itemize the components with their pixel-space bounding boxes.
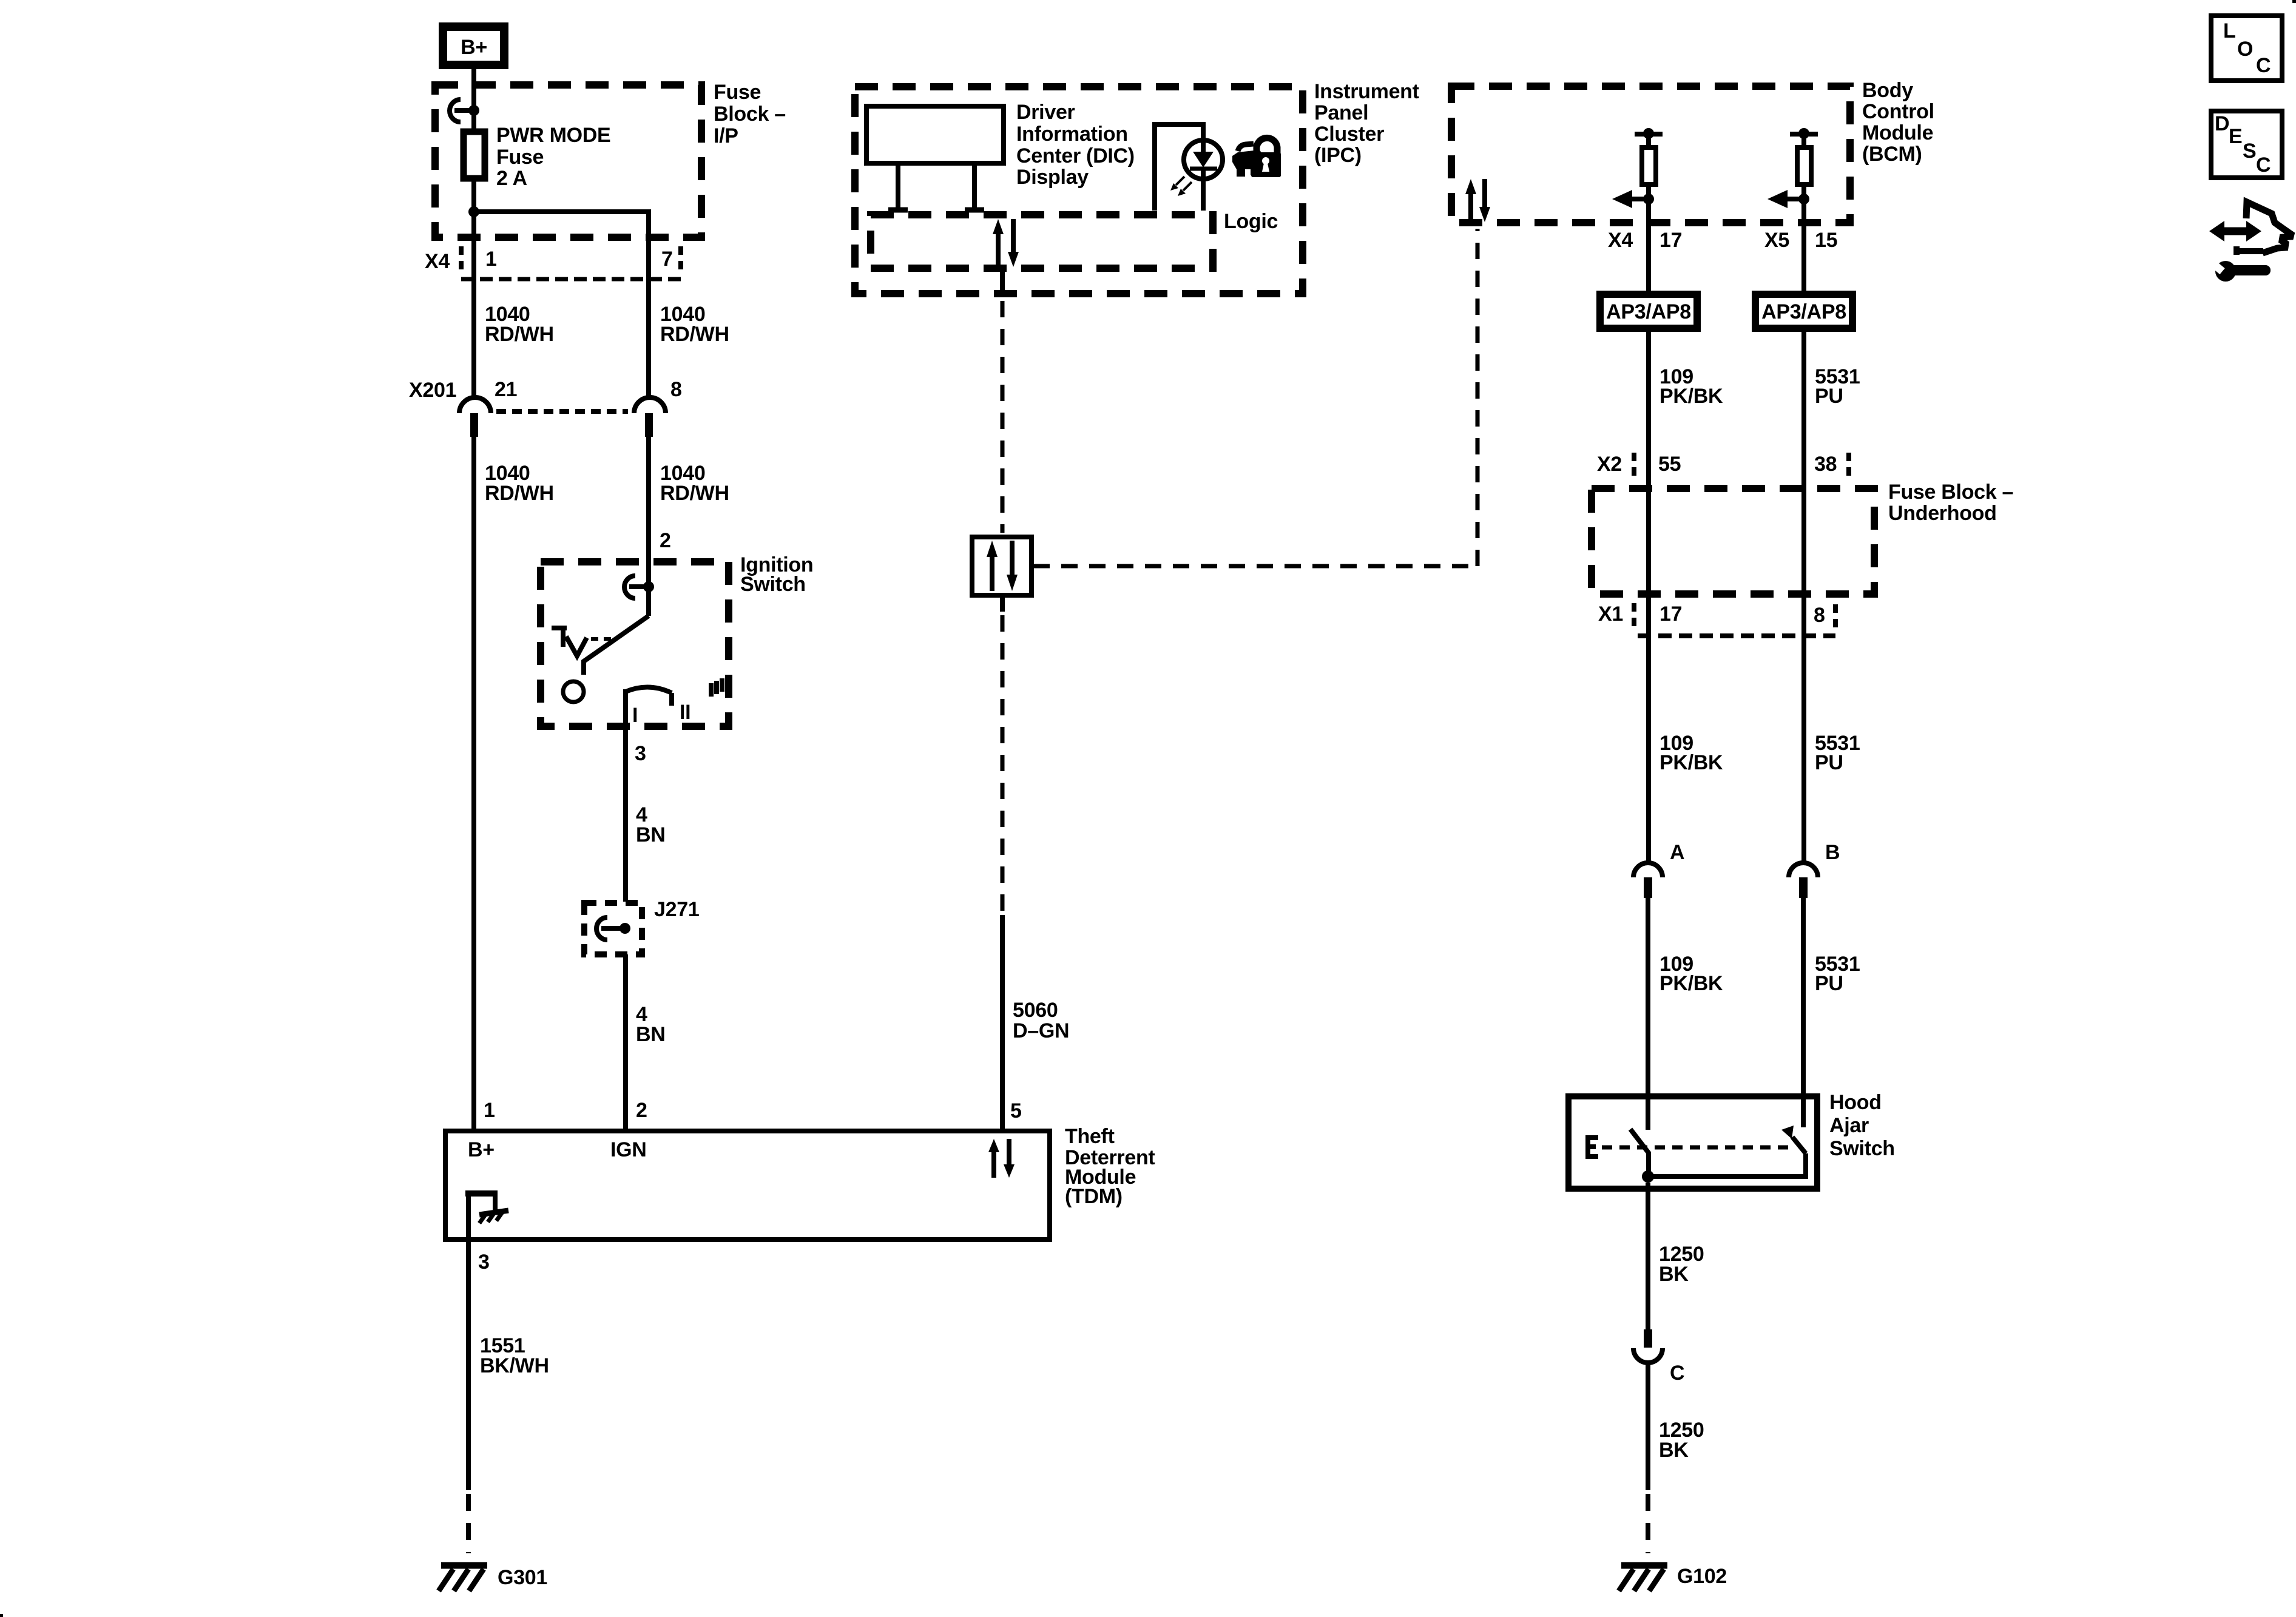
wire branch to X4 pin 7 [474, 212, 649, 398]
dashed serial data wire to BCM [1033, 229, 1477, 566]
body control module dashed box [1451, 86, 1850, 223]
svg-text:IGN: IGN [610, 1138, 647, 1161]
B+ power symbol box [443, 27, 504, 65]
svg-text:AP3/AP8: AP3/AP8 [1606, 300, 1691, 323]
svg-text:E: E [2229, 125, 2242, 148]
label Hood Ajar Switch [1829, 1091, 1895, 1160]
connector row X4 [425, 246, 683, 279]
BCM pull-up resistor left [1612, 128, 1663, 229]
svg-text:B+: B+ [461, 36, 487, 59]
svg-text:C: C [2256, 154, 2271, 177]
svg-text:D: D [2215, 112, 2229, 135]
svg-text:Hood: Hood [1829, 1091, 1882, 1114]
svg-text:X5: X5 [1764, 229, 1789, 252]
logic serial data arrows [993, 219, 1019, 267]
svg-text:8: 8 [670, 378, 682, 401]
TDM internal ground [465, 1193, 508, 1239]
label G301 [498, 1566, 547, 1589]
svg-text:I: I [632, 704, 638, 727]
splice J271 dashed box [584, 903, 642, 954]
svg-text:5: 5 [1010, 1099, 1022, 1122]
clip contact at J271 [596, 917, 630, 940]
label Body Control Module (BCM) [1862, 79, 1934, 166]
svg-text:5060: 5060 [1013, 999, 1058, 1022]
wire B+ to PWR MODE fuse [471, 69, 476, 130]
LOC reference box [2211, 16, 2282, 81]
AP3/AP8 box left [1600, 294, 1697, 328]
wire label 1040 RD/WH (lower left) [485, 462, 554, 505]
inline connector C [1633, 1329, 1684, 1385]
svg-text:RD/WH: RD/WH [660, 323, 729, 346]
serial data wire to TDM pin 5 [1000, 597, 1005, 1130]
svg-text:Switch: Switch [740, 573, 806, 596]
ignition switch blade and pivot [563, 616, 649, 702]
page corner mark bottom-left [0, 1614, 3, 1617]
svg-text:17: 17 [1660, 229, 1682, 252]
svg-text:C: C [1670, 1362, 1684, 1385]
wire J271 to TDM pin2 [623, 954, 628, 1130]
svg-text:B: B [1825, 841, 1840, 864]
svg-text:BK/WH: BK/WH [480, 1354, 549, 1377]
svg-text:55: 55 [1658, 453, 1681, 476]
svg-text:X201: X201 [409, 379, 456, 402]
label Fuse Block - Underhood [1888, 481, 2013, 525]
wires BCM to AP3/AP8 [1649, 229, 1804, 291]
wire connector C to ground G102 [1646, 1363, 1650, 1553]
DIC display legs [888, 166, 984, 210]
svg-text:17: 17 [1660, 603, 1682, 626]
svg-text:Center (DIC): Center (DIC) [1016, 144, 1135, 167]
pin 3 label TDM [478, 1251, 490, 1274]
wire label 5531 PU (first) [1815, 365, 1860, 408]
svg-text:BK: BK [1659, 1439, 1689, 1462]
svg-text:3: 3 [478, 1251, 490, 1274]
svg-text:Underhood: Underhood [1888, 502, 1997, 525]
svg-text:D–GN: D–GN [1013, 1019, 1069, 1042]
wire label 1250 BK (second) [1659, 1419, 1704, 1462]
clip contact in ignition switch [624, 576, 654, 598]
svg-text:21: 21 [495, 378, 517, 401]
label G102 [1677, 1565, 1727, 1588]
IPC logic dashed box [871, 215, 1213, 268]
svg-text:(BCM): (BCM) [1862, 143, 1922, 166]
wire label 1551 BK/WH [480, 1334, 549, 1377]
svg-text:PU: PU [1815, 972, 1843, 995]
connector row X1 [1598, 603, 1835, 636]
svg-text:AP3/AP8: AP3/AP8 [1761, 300, 1846, 323]
svg-text:J271: J271 [654, 898, 699, 921]
ignition switch fixed contact [552, 628, 613, 656]
clip contact at fuse block feed [450, 100, 479, 122]
svg-text:RD/WH: RD/WH [485, 482, 554, 505]
svg-text:PU: PU [1815, 385, 1843, 408]
DIC display rectangle [866, 106, 1004, 163]
pin 2 label ignition switch [660, 529, 671, 552]
svg-text:Fuse Block –: Fuse Block – [1888, 481, 2013, 504]
AP3/AP8 box right [1755, 294, 1852, 328]
TDM pin labels 1 2 5 [484, 1099, 1022, 1122]
svg-text:Cluster: Cluster [1314, 123, 1384, 146]
wire TDM pin3 to ground [466, 1241, 471, 1553]
wire label 1040 RD/WH (upper left) [485, 303, 554, 346]
svg-text:PK/BK: PK/BK [1660, 972, 1723, 995]
svg-text:Body: Body [1862, 79, 1913, 102]
svg-text:RD/WH: RD/WH [660, 482, 729, 505]
svg-text:B+: B+ [468, 1138, 495, 1161]
svg-text:S: S [2243, 140, 2256, 163]
page corner mark top-right [2292, 0, 2296, 3]
svg-text:Information: Information [1016, 123, 1128, 146]
svg-text:7: 7 [661, 248, 673, 271]
pin 3 label ignition switch [635, 742, 646, 765]
svg-text:X4: X4 [1608, 229, 1633, 252]
wire label 4 BN (lower) [636, 1003, 666, 1046]
svg-text:Block –: Block – [714, 103, 786, 126]
ignition position labels I II III [632, 678, 722, 727]
svg-text:2: 2 [660, 529, 671, 552]
wire label 1040 RD/WH (lower right) [660, 462, 729, 505]
connector row X201 [409, 378, 682, 437]
ground G301 [439, 1565, 487, 1591]
BCM serial data arrows [1465, 179, 1490, 222]
label Driver Information Center (DIC) Display [1016, 101, 1135, 189]
junction node in fuse block [468, 206, 479, 217]
vehicle security icon (car with padlock) [1232, 138, 1281, 177]
svg-text:C: C [2256, 54, 2271, 77]
svg-text:Control: Control [1862, 100, 1934, 123]
serial box arrows [987, 541, 1018, 591]
wire label 1250 BK (first) [1659, 1243, 1704, 1286]
svg-text:G102: G102 [1677, 1565, 1727, 1588]
svg-text:PK/BK: PK/BK [1660, 751, 1723, 774]
svg-text:2: 2 [636, 1099, 647, 1122]
wires connectors A/B to hood ajar switch [1648, 898, 1803, 1130]
hood ajar switch box [1568, 1096, 1817, 1189]
wire X201 pin8 to ignition switch [646, 436, 651, 616]
fuse block I/P dashed box [435, 85, 701, 237]
wire ignition pin3 to J271 [623, 689, 628, 902]
wire X201 pin21 to TDM pin1 [471, 436, 476, 1130]
label Instrument Panel Cluster (IPC) [1314, 80, 1419, 167]
theft deterrent module box [445, 1131, 1050, 1240]
label Fuse Block - I/P [714, 81, 786, 147]
wire label 5531 PU (third) [1815, 953, 1860, 995]
wire label 1040 RD/WH (upper right) [660, 303, 729, 346]
svg-text:L: L [2223, 19, 2235, 42]
svg-text:RD/WH: RD/WH [485, 323, 554, 346]
LED emission arrows [1170, 177, 1192, 196]
wire label 4 BN (upper) [636, 803, 666, 846]
svg-text:II: II [680, 701, 690, 724]
svg-text:3: 3 [635, 742, 646, 765]
svg-text:Module: Module [1862, 121, 1933, 144]
ignition switch dashed box [541, 562, 729, 726]
TDM terminal labels [468, 1138, 647, 1161]
repair information icon (arrow car wrench) [2209, 202, 2291, 282]
wire hood switch to connector C [1646, 1183, 1650, 1329]
serial data wire IPC to splice box [1000, 268, 1005, 533]
svg-text:Ajar: Ajar [1829, 1114, 1869, 1137]
svg-text:Switch: Switch [1829, 1137, 1895, 1160]
svg-text:Panel: Panel [1314, 101, 1368, 124]
label Theft Deterrent Module (TDM) [1065, 1125, 1155, 1208]
label Ignition Switch [740, 553, 813, 596]
wires AP boxes to hood ajar switch [1649, 332, 1804, 862]
serial data symbol box [972, 537, 1032, 595]
wire label 109 PK/BK (second) [1660, 732, 1723, 774]
svg-text:(IPC): (IPC) [1314, 144, 1362, 167]
svg-text:1: 1 [485, 248, 497, 271]
svg-text:Fuse: Fuse [714, 81, 761, 104]
instrument panel cluster dashed box [855, 87, 1303, 294]
svg-text:38: 38 [1814, 453, 1837, 476]
svg-text:G301: G301 [498, 1566, 547, 1589]
wire label 5060 D-GN [1013, 999, 1069, 1042]
BCM pin labels X4 17 X5 15 [1608, 229, 1837, 252]
svg-text:8: 8 [1814, 604, 1825, 627]
svg-text:Fuse: Fuse [496, 146, 544, 169]
inline connector B [1789, 841, 1840, 898]
svg-text:Instrument: Instrument [1314, 80, 1419, 103]
svg-text:Logic: Logic [1224, 210, 1278, 233]
ignition switch position contact arc [626, 687, 672, 706]
svg-text:PWR MODE: PWR MODE [496, 124, 610, 147]
svg-text:X4: X4 [425, 250, 450, 273]
svg-text:Theft: Theft [1065, 1125, 1115, 1148]
fuse block underhood dashed box [1592, 488, 1874, 594]
connector row X2 labels [1597, 453, 1849, 478]
svg-text:(TDM): (TDM) [1065, 1185, 1123, 1208]
svg-text:Display: Display [1016, 166, 1089, 189]
DESC reference box [2211, 111, 2282, 178]
svg-text:O: O [2237, 38, 2253, 61]
wire label 109 PK/BK (third) [1660, 953, 1723, 995]
svg-text:BN: BN [636, 823, 666, 846]
security LED indicator [1155, 124, 1223, 211]
svg-text:1: 1 [484, 1099, 495, 1122]
label PWR MODE Fuse 2 A [496, 124, 610, 190]
BCM pull-up resistor right [1768, 128, 1818, 229]
svg-text:15: 15 [1815, 229, 1837, 252]
ground G102 [1619, 1565, 1667, 1591]
svg-text:Driver: Driver [1016, 101, 1075, 124]
svg-text:X1: X1 [1598, 603, 1623, 626]
svg-text:I/P: I/P [714, 124, 738, 147]
fuse PWR MODE 2A [464, 132, 485, 178]
svg-text:X2: X2 [1597, 453, 1622, 476]
label Logic [1224, 210, 1278, 233]
hood ajar switch internals [1588, 1126, 1806, 1183]
wire label 5531 PU (second) [1815, 732, 1860, 774]
wire label 109 PK/BK (first) [1660, 365, 1723, 408]
svg-text:A: A [1670, 841, 1684, 864]
label J271 [654, 898, 699, 921]
svg-text:2 A: 2 A [496, 167, 527, 190]
TDM serial data arrows [988, 1139, 1015, 1178]
inline connector A [1633, 841, 1684, 898]
svg-text:PU: PU [1815, 751, 1843, 774]
svg-text:BN: BN [636, 1023, 666, 1046]
wire fuse to X4 pin 1 [471, 180, 476, 398]
svg-text:PK/BK: PK/BK [1660, 385, 1723, 408]
svg-text:BK: BK [1659, 1263, 1689, 1286]
